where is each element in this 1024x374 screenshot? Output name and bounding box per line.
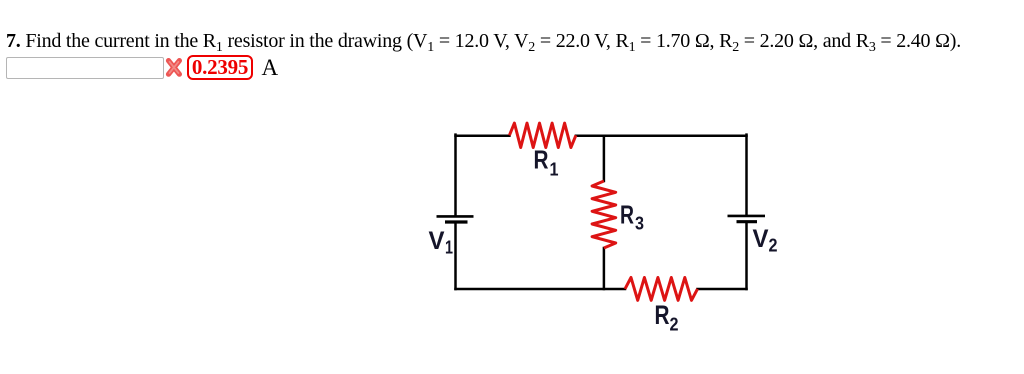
battery V2 short plate [737,220,758,223]
label R3 [620,199,644,233]
svg-text:V: V [753,225,769,253]
wire left side upper (top-left corner down to V1 plate) [454,135,457,216]
wire middle branch upper (top node to R3) [603,136,606,181]
svg-text:1: 1 [445,238,453,258]
svg-text:2: 2 [769,236,778,256]
wire right side lower (V2 to bottom-right corner) [745,223,748,289]
wire left side lower (V1 to bottom-left corner) [454,223,457,289]
svg-text:R: R [534,144,549,174]
svg-text:3: 3 [635,214,644,234]
resistor R2 zigzag [625,278,698,301]
resistor R3 zigzag [592,181,616,248]
answer key box 0.2395 [187,55,253,80]
wire top-right (R1 to top-right corner, through top node) [576,135,747,138]
svg-text:1: 1 [550,159,559,179]
wire top-left (left node to R1) [456,135,510,138]
battery V1 long plate [437,215,474,218]
label R1 [534,144,559,179]
svg-text:R: R [620,199,634,229]
battery V2 long plate [728,215,766,218]
answer input field [6,57,164,79]
red X incorrect mark [165,57,184,79]
battery V1 short plate [445,220,468,223]
wire middle branch lower (R3 to bottom node) [603,248,606,289]
svg-text:2: 2 [670,315,679,335]
label R2 [655,300,679,335]
wire bottom-left (bottom-left corner to R2, through bottom node) [456,288,626,291]
wire right side upper (top-right corner to V2 plate) [745,135,748,215]
question text line 1 [6,30,961,53]
svg-text:R: R [655,300,670,330]
svg-text:V: V [429,227,445,255]
wire bottom-right (R2 to bottom-right corner) [698,288,747,291]
label V2 [753,225,778,255]
unit A [262,56,279,79]
resistor R1 zigzag [509,123,576,147]
label V1 [429,227,454,258]
